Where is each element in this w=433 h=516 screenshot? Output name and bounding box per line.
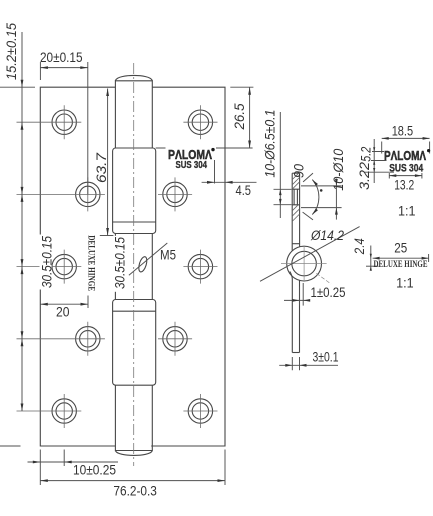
svg-text:20±0.15: 20±0.15 bbox=[40, 50, 83, 65]
hole r3 left outer bbox=[52, 254, 76, 278]
svg-text:10±0.25: 10±0.25 bbox=[73, 463, 116, 478]
dimension line 76.2-0.3 bbox=[40, 480, 225, 482]
dim 10-Ø10 bbox=[301, 179, 342, 220]
PALOMA logo stamp (main view) bbox=[166, 147, 217, 172]
svg-text:3±0.1: 3±0.1 bbox=[313, 350, 339, 365]
extension line (curl edge) bbox=[302, 283, 304, 306]
dim text 10-Ø6.5±0.1 bbox=[262, 106, 278, 178]
svg-text:10-Ø10: 10-Ø10 bbox=[331, 148, 346, 190]
countersink rim lines bbox=[301, 186, 342, 208]
hole r4 left inner bbox=[76, 327, 100, 351]
svg-text:4.5: 4.5 bbox=[236, 183, 252, 198]
svg-text:1:1: 1:1 bbox=[396, 276, 414, 291]
svg-text:25: 25 bbox=[394, 241, 407, 256]
arc bbox=[312, 180, 319, 215]
extension tick right bbox=[87, 296, 89, 309]
svg-text:1±0.25: 1±0.25 bbox=[311, 285, 346, 300]
hole r2 right inner bbox=[163, 182, 187, 206]
hatch upper bbox=[292, 173, 299, 221]
dimension line bbox=[284, 299, 310, 301]
strip transition tick bbox=[292, 243, 299, 245]
barrel centerline bbox=[133, 63, 135, 466]
right edge extension down bbox=[224, 450, 226, 486]
knuckle box A bbox=[113, 148, 156, 234]
hinge plate right leaf outline bbox=[151, 87, 225, 446]
top edge extension line (left) bbox=[0, 86, 35, 88]
svg-text:63.7: 63.7 bbox=[94, 152, 109, 183]
svg-text:2.4: 2.4 bbox=[352, 238, 367, 255]
knuckle inner circle (pin bore) bbox=[292, 251, 317, 276]
chain arrowheads bbox=[21, 80, 24, 88]
svg-text:DELUXE HINGE: DELUXE HINGE bbox=[85, 235, 95, 291]
M5 leader line bbox=[129, 243, 167, 275]
extension line right (down to hole r2) bbox=[87, 62, 89, 194]
left chain dimension line bbox=[21, 32, 23, 411]
extension lines bbox=[292, 357, 299, 370]
barrel bottom dome bbox=[116, 451, 153, 455]
barrel top cap base line bbox=[115, 80, 152, 82]
svg-text:30.5±0.15: 30.5±0.15 bbox=[40, 236, 55, 288]
Ø14.2 leader bbox=[260, 227, 360, 282]
bottom edge extension line (left) bbox=[0, 445, 21, 447]
Ø6.5 dimension line bbox=[279, 112, 281, 218]
angle tick bottom bbox=[303, 212, 313, 220]
dimension line 26.5 bbox=[249, 87, 251, 148]
extension line (strip edge) bbox=[299, 287, 301, 306]
hole r3 right outer bbox=[188, 254, 212, 278]
Ø6.5 ticks bbox=[274, 189, 292, 204]
left edge extension down bbox=[39, 450, 41, 486]
dimension line bbox=[40, 67, 87, 69]
Ø10 dimension line bbox=[335, 179, 337, 220]
lower leaf strip bottom cap bbox=[292, 352, 299, 354]
barrel narrow section 3 bbox=[115, 385, 152, 451]
extension line from logo edge bbox=[214, 160, 216, 184]
knuckle box B ring line bbox=[113, 310, 156, 312]
hole center crosses bbox=[17, 105, 218, 428]
svg-text:Ø14.2: Ø14.2 bbox=[310, 228, 344, 243]
knuckle junction extension line (for 26.5) bbox=[156, 147, 253, 149]
svg-text:20: 20 bbox=[56, 305, 70, 320]
svg-text:M5: M5 bbox=[160, 248, 176, 263]
svg-text:DELUXE HINGE: DELUXE HINGE bbox=[374, 260, 428, 270]
leaf strip left edge (upper) bbox=[291, 173, 293, 250]
lower leaf strip right edge bbox=[299, 280, 301, 352]
countersink cone edges bbox=[294, 189, 297, 205]
hole r2 left inner bbox=[76, 182, 100, 206]
dim 10-Ø6.5±0.1 bbox=[274, 112, 292, 218]
screw holes (10x countersunk) bbox=[52, 110, 213, 423]
90 degree arc dimension bbox=[303, 173, 319, 220]
extension line left bbox=[39, 62, 41, 80]
svg-text:15.2±0.15: 15.2±0.15 bbox=[4, 23, 19, 80]
barrel top dome bbox=[116, 75, 153, 80]
lower leaf strip left edge bbox=[290, 272, 292, 353]
hole r1 right outer bbox=[188, 110, 212, 134]
dim 13.2 bbox=[389, 173, 422, 179]
dim 25 bbox=[366, 246, 429, 270]
arc arrowheads bbox=[312, 180, 318, 186]
barrel narrow section 2 bbox=[115, 234, 152, 300]
svg-text:PΛLOMΛ: PΛLOMΛ bbox=[384, 148, 426, 163]
hole r1 left outer bbox=[52, 110, 76, 134]
extension tick at 63.7 bottom bbox=[100, 235, 114, 237]
knuckle 45deg dash line bbox=[316, 273, 331, 284]
M5 hole ellipse bbox=[137, 256, 148, 273]
dimension line 4.5 bbox=[202, 181, 257, 183]
hinge plate left leaf outline bbox=[40, 87, 115, 446]
hole r4 right inner bbox=[163, 327, 187, 351]
hole r5 right outer bbox=[188, 399, 212, 423]
dims 5.2 / 3.22 (stamp heights) bbox=[364, 139, 394, 183]
dimension line bbox=[40, 303, 88, 305]
dim text 30.5±0.15 (central) bbox=[113, 236, 128, 292]
dimension line 10±0.25 bbox=[28, 461, 119, 463]
leaf strip right edge (upper) bbox=[299, 173, 301, 247]
leaf strip top cap bbox=[292, 172, 299, 174]
dim 1±0.25 bbox=[284, 283, 310, 306]
svg-text:76.2-0.3: 76.2-0.3 bbox=[113, 484, 156, 499]
dim 3±0.1 bbox=[279, 357, 338, 370]
svg-text:26.5: 26.5 bbox=[232, 103, 247, 130]
dimension line bbox=[279, 364, 338, 366]
barrel bottom cap base line bbox=[115, 450, 152, 452]
knuckle box A ring line bbox=[113, 221, 156, 223]
knuckle outer circle bbox=[287, 246, 322, 281]
dim text 30.5±0.15 (left) bbox=[40, 235, 55, 290]
svg-text:18.5: 18.5 bbox=[392, 124, 413, 139]
knuckle centerlines bbox=[281, 246, 327, 282]
svg-text:13.2: 13.2 bbox=[394, 178, 414, 193]
svg-text:90: 90 bbox=[291, 164, 306, 178]
hole col1 extension down bbox=[63, 450, 65, 467]
svg-text:5.2: 5.2 bbox=[359, 146, 374, 161]
svg-text:3.22: 3.22 bbox=[357, 161, 372, 190]
knuckle box B bbox=[113, 300, 156, 386]
svg-text:1:1: 1:1 bbox=[398, 204, 416, 219]
angle tick top bbox=[303, 173, 313, 182]
hole r5 left outer bbox=[52, 399, 76, 423]
top edge extension (right) bbox=[230, 86, 253, 88]
countersunk hole bore lines bbox=[292, 189, 299, 205]
svg-text:30.5±0.15: 30.5±0.15 bbox=[113, 237, 128, 289]
dim 18.5 bbox=[382, 138, 430, 153]
angle vertex dot bbox=[320, 189, 323, 192]
central dimension line 63.7 bbox=[107, 89, 109, 236]
svg-text:10-Ø6.5±0.1: 10-Ø6.5±0.1 bbox=[263, 110, 278, 178]
barrel narrow section 1 bbox=[115, 80, 152, 148]
svg-text:SUS 304: SUS 304 bbox=[176, 160, 208, 171]
svg-text:SUS 304: SUS 304 bbox=[389, 163, 424, 175]
